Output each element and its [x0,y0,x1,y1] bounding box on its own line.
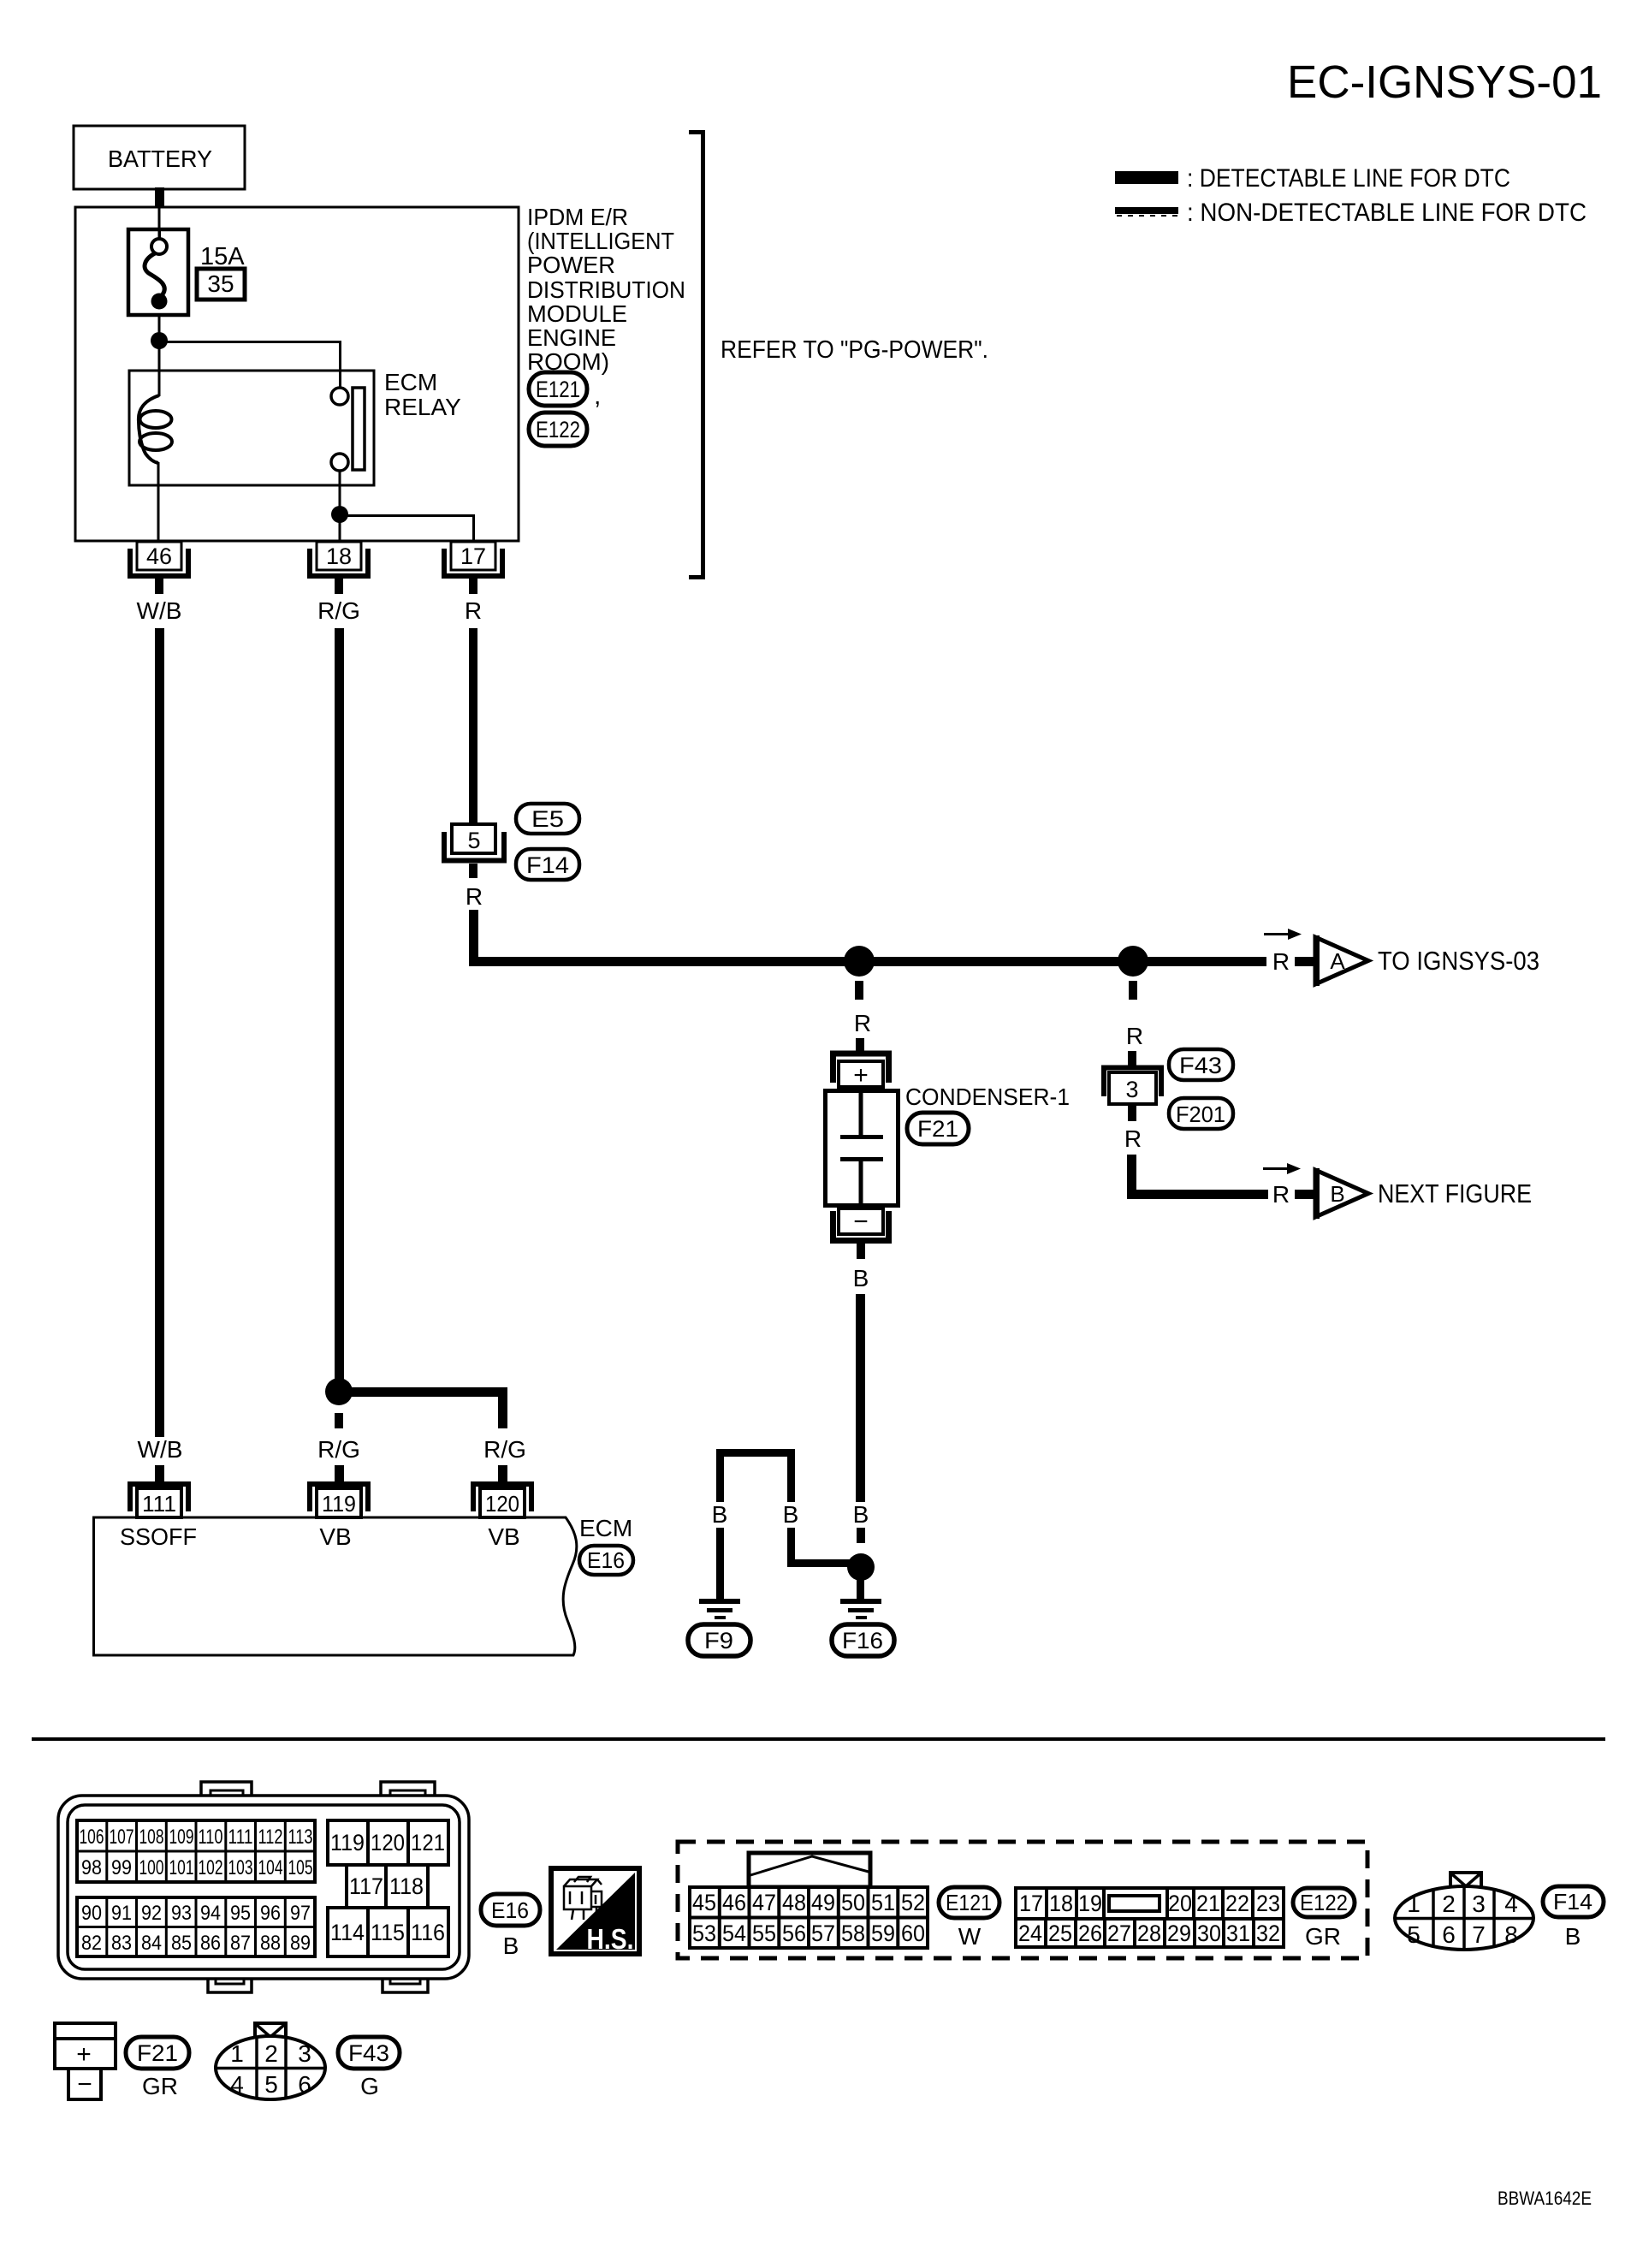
wire R to condenser [856,1038,864,1053]
svg-text:17: 17 [460,543,486,569]
svg-text:F14: F14 [1553,1889,1593,1915]
condenser-1 top bracket [833,1054,889,1083]
terminal 119 [307,1484,371,1517]
svg-text:6: 6 [1442,1921,1456,1948]
svg-text:BATTERY: BATTERY [108,145,212,172]
svg-text:92: 92 [141,1902,162,1925]
svg-text:VB: VB [488,1523,519,1550]
label B middle [783,1501,799,1528]
svg-text:93: 93 [171,1902,192,1925]
svg-text:121: 121 [411,1830,445,1855]
small arrow above B [1263,1163,1301,1174]
ground symbol F9 [699,1599,740,1619]
svg-text:119: 119 [322,1491,356,1517]
svg-text:RELAY: RELAY [384,394,461,420]
terminal 17 [442,542,505,594]
svg-text:82: 82 [81,1932,102,1955]
svg-text:101: 101 [169,1856,194,1879]
svg-text:31: 31 [1226,1921,1250,1946]
E121 hood [749,1853,870,1887]
connector label F43 [1169,1049,1233,1080]
svg-text:86: 86 [200,1932,221,1955]
svg-text:2: 2 [1442,1891,1456,1917]
svg-text:51: 51 [871,1890,895,1915]
wire B loop F9 [721,1453,792,1503]
E16 pin grid lower-left [77,1897,315,1956]
H.S. emblem [551,1868,639,1955]
connector label E122 [529,413,587,446]
svg-text:SSOFF: SSOFF [120,1523,197,1550]
svg-text:55: 55 [752,1921,776,1946]
svg-text:−: − [77,2070,92,2099]
svg-text:+: + [76,2040,92,2069]
connector label E121 [529,372,601,410]
svg-text:114: 114 [330,1920,365,1945]
svg-text:F16: F16 [842,1628,883,1654]
svg-text:103: 103 [228,1856,253,1879]
svg-text:111: 111 [142,1491,176,1517]
relay coil [139,395,172,463]
svg-text:60: 60 [901,1921,925,1946]
label R/G above ECM 119 [317,1436,360,1463]
svg-text:25: 25 [1048,1921,1072,1946]
inline connector 3 (F43/F201) [1104,1068,1161,1122]
svg-text:E121: E121 [946,1890,992,1915]
svg-text:5: 5 [1407,1921,1421,1948]
connector label F43 (bottom) [338,2037,400,2099]
legend non-detectable line bar [1115,207,1178,217]
label R before arrow A [1272,948,1290,975]
svg-text:111: 111 [228,1826,253,1849]
svg-text:MODULE: MODULE [527,300,627,327]
svg-text:B: B [503,1933,519,1959]
legend non-detectable line text [1187,199,1587,227]
svg-text:83: 83 [111,1932,132,1955]
F14 connector drawing [1395,1873,1533,1950]
E16 ECM connector outline [58,1782,469,1992]
separator line [32,1737,1605,1741]
svg-text:120: 120 [371,1830,405,1855]
wire to terminal 119 [335,1465,344,1488]
wire dashed B right [857,1528,865,1543]
svg-text:118: 118 [389,1873,424,1899]
svg-text:R: R [1126,1023,1143,1049]
svg-text:R: R [1272,1181,1290,1208]
svg-text:8: 8 [1504,1921,1518,1948]
svg-text:B: B [1330,1181,1344,1207]
svg-text:B: B [1565,1923,1581,1950]
wire R terminal 17 to connector 5 [469,628,477,825]
ground symbol F16 [840,1599,881,1619]
svg-text:+: + [853,1061,869,1089]
fuse number 35 box [197,269,245,300]
svg-text:ENGINE: ENGINE [527,324,616,351]
svg-text:115: 115 [371,1920,405,1945]
node bus junction 1 [844,946,875,977]
ECM relay box [129,371,374,485]
svg-text:98: 98 [81,1856,102,1879]
label R below connector 3 [1124,1125,1142,1152]
wire stub to arrow A [1295,957,1314,966]
svg-text:5: 5 [467,828,480,853]
svg-text:18: 18 [326,543,352,569]
svg-text:29: 29 [1167,1921,1191,1946]
fuse rating 15A [200,243,245,270]
fuse 15A (35) [128,229,188,315]
svg-text:35: 35 [207,270,234,297]
wire to terminal 111 [155,1465,164,1488]
IPDM E/R box [75,207,519,541]
label VB 120 [488,1523,519,1550]
svg-text:27: 27 [1107,1921,1131,1946]
svg-text:F43: F43 [348,2040,389,2066]
svg-text:22: 22 [1225,1891,1249,1916]
svg-text:20: 20 [1168,1891,1192,1916]
svg-text:ECM: ECM [579,1515,632,1541]
label R [465,597,482,624]
svg-text:52: 52 [901,1890,925,1915]
svg-text:R/G: R/G [483,1436,526,1463]
svg-text:B: B [783,1501,799,1528]
connector label E16 [579,1546,633,1575]
svg-text:30: 30 [1197,1921,1221,1946]
svg-text:R/G: R/G [317,1436,360,1463]
svg-text:B: B [712,1501,728,1528]
svg-text:106: 106 [80,1826,104,1849]
svg-text:E122: E122 [536,417,580,442]
svg-text:17: 17 [1019,1891,1043,1916]
node R/G junction [325,1378,353,1405]
svg-text:6: 6 [298,2071,311,2098]
svg-text:POWER: POWER [527,252,615,278]
svg-text:120: 120 [485,1491,519,1517]
label R above condenser [854,1010,871,1036]
svg-text:32: 32 [1256,1921,1280,1946]
svg-text:R: R [854,1010,871,1036]
node ground junction [847,1553,875,1581]
connector label F14 [516,849,579,880]
wire R/G junction branch to terminal 120 [339,1392,503,1429]
svg-text:(INTELLIGENT: (INTELLIGENT [527,228,674,254]
label CONDENSER-1 [905,1084,1070,1110]
svg-text:85: 85 [171,1932,192,1955]
svg-text:3: 3 [298,2040,311,2067]
svg-text:W/B: W/B [137,597,182,624]
svg-text:2: 2 [264,2040,278,2067]
svg-text:46: 46 [146,543,172,569]
svg-text:91: 91 [111,1902,132,1925]
label R/G [317,597,360,624]
svg-text:A: A [1330,948,1345,974]
arrow A TO IGNSYS-03 [1314,935,1368,986]
svg-text:ECM: ECM [384,369,437,395]
svg-text:95: 95 [230,1902,251,1925]
wire B middle to junction [792,1528,851,1564]
wire node to terminal 18 [339,514,341,542]
node relay output junction [331,506,348,523]
svg-text:B: B [853,1265,869,1291]
arrow B NEXT FIGURE [1314,1168,1368,1219]
svg-text:CONDENSER-1: CONDENSER-1 [905,1084,1070,1110]
connector label F201 [1169,1098,1233,1129]
svg-text:102: 102 [199,1856,223,1879]
svg-text:84: 84 [141,1932,162,1955]
svg-text:54: 54 [722,1921,746,1946]
node fuse/relay junction [151,332,168,349]
wire W/B terminal 46 to ECM 111 [155,628,164,1437]
wire junction to ground F16 [857,1567,864,1601]
IPDM label text [527,204,685,375]
node bus junction 2 [1118,946,1148,977]
E121 pin grid [690,1887,928,1948]
svg-text:1: 1 [1407,1891,1421,1917]
condenser-1 minus terminal box [839,1208,883,1236]
wire R to connector 3 [1128,1051,1136,1066]
svg-text:H.S.: H.S. [587,1923,634,1955]
svg-text:47: 47 [752,1890,776,1915]
wire battery to IPDM [155,187,164,208]
svg-text:46: 46 [722,1890,746,1915]
svg-text:W: W [958,1923,982,1950]
wire node to terminal 17 [340,516,474,543]
svg-text:R/G: R/G [317,597,360,624]
svg-text:21: 21 [1196,1891,1220,1916]
wire R connector 5 to bus [474,910,1267,962]
svg-text:19: 19 [1078,1891,1102,1916]
svg-text:112: 112 [258,1826,283,1849]
svg-text:57: 57 [811,1921,835,1946]
svg-text:E16: E16 [491,1897,529,1923]
svg-text:87: 87 [230,1932,251,1955]
connector label F21 (bottom) [126,2037,189,2099]
wire B condenser to ground junction [856,1294,865,1502]
connector label E122 (bottom) [1293,1888,1355,1950]
svg-text:3: 3 [1125,1077,1138,1102]
svg-text:113: 113 [288,1826,313,1849]
ground label F9 [688,1624,750,1656]
svg-text:R: R [1272,948,1290,975]
svg-text:100: 100 [139,1856,164,1879]
label R/G above ECM 120 [483,1436,526,1463]
svg-text:18: 18 [1049,1891,1073,1916]
svg-text:GR: GR [142,2073,178,2099]
ground label F16 [832,1624,894,1656]
bracket refer to PG-POWER [689,133,703,578]
label ECM [579,1515,632,1541]
wire node to relay coil [158,341,161,396]
svg-text:49: 49 [811,1890,835,1915]
svg-text:28: 28 [1137,1921,1161,1946]
svg-text:7: 7 [1472,1921,1486,1948]
svg-text:R: R [466,883,483,910]
svg-text:GR: GR [1305,1923,1341,1950]
svg-text:EC-IGNSYS-01: EC-IGNSYS-01 [1287,56,1602,108]
ECM box [94,1517,577,1655]
svg-text:15A: 15A [200,243,245,270]
wire fuse to node [158,315,161,333]
condenser-1 bottom bracket [833,1211,889,1241]
svg-text:F43: F43 [1179,1053,1222,1078]
svg-text:: DETECTABLE LINE FOR DTC: : DETECTABLE LINE FOR DTC [1187,164,1510,193]
svg-text:59: 59 [871,1921,895,1946]
svg-text:58: 58 [841,1921,865,1946]
svg-text:1: 1 [230,2040,244,2067]
terminal 46 [128,542,191,594]
connector label E121 (bottom) [939,1887,999,1950]
connector label F21 [907,1113,969,1144]
svg-text:B: B [853,1501,869,1528]
svg-text:REFER TO "PG-POWER".: REFER TO "PG-POWER". [721,336,988,364]
svg-text:89: 89 [290,1932,311,1955]
svg-text:94: 94 [200,1902,221,1925]
svg-text:F21: F21 [917,1116,958,1142]
svg-text:23: 23 [1256,1891,1280,1916]
svg-text:45: 45 [692,1890,716,1915]
wire dashed below R/G junction [335,1413,343,1428]
svg-text:E5: E5 [531,806,564,832]
small arrow above A [1264,929,1302,940]
svg-text:48: 48 [782,1890,806,1915]
svg-text:97: 97 [290,1902,311,1925]
wire contact to node 18 [339,471,341,514]
battery [74,126,245,189]
svg-text:4: 4 [230,2071,244,2098]
svg-text:IPDM E/R: IPDM E/R [527,204,628,230]
wire node to relay contact [159,342,341,389]
svg-text:24: 24 [1018,1921,1042,1946]
ECM RELAY label [384,369,461,420]
svg-text:90: 90 [81,1902,102,1925]
svg-text:26: 26 [1078,1921,1102,1946]
terminal 18 [307,542,371,594]
label R below connector 5 [466,883,483,910]
svg-text:E121: E121 [536,377,580,402]
terminal 111 [128,1484,191,1517]
svg-text:TO IGNSYS-03: TO IGNSYS-03 [1378,946,1539,976]
text REFER TO PG-POWER [721,336,988,364]
label W/B above ECM [138,1436,183,1463]
svg-text:F14: F14 [526,852,569,878]
wire battery to fuse [158,207,161,231]
title EC-IGNSYS-01 [1287,56,1602,108]
svg-text:E122: E122 [1300,1890,1348,1915]
connector label F14 (bottom) [1543,1886,1604,1950]
legend detectable line text [1187,164,1510,193]
svg-text:DISTRIBUTION: DISTRIBUTION [527,276,685,303]
svg-text:,: , [594,382,601,410]
svg-text:105: 105 [288,1856,313,1879]
svg-text:3: 3 [1472,1891,1486,1917]
F21 connector drawing [55,2023,116,2099]
wire stub to arrow B [1295,1190,1314,1199]
F43 connector drawing [216,2023,325,2099]
legend detectable line bar [1115,171,1178,184]
svg-text:108: 108 [139,1826,164,1849]
svg-text:110: 110 [199,1826,223,1849]
label B right [853,1501,869,1528]
E122 pin grid [1016,1888,1284,1947]
svg-text:BBWA1642E: BBWA1642E [1498,2188,1592,2209]
svg-text:104: 104 [258,1856,283,1879]
label B left [712,1501,728,1528]
wire stub below condenser [857,1244,865,1259]
svg-text:R: R [465,597,482,624]
svg-text:119: 119 [330,1830,365,1855]
wire R connector 3 to arrow B [1132,1155,1269,1195]
svg-text:107: 107 [110,1826,134,1849]
svg-text:NEXT FIGURE: NEXT FIGURE [1378,1179,1532,1208]
connector label E16 (bottom) [481,1894,540,1959]
svg-text:−: − [853,1208,869,1236]
svg-text:99: 99 [111,1856,132,1879]
svg-text:50: 50 [841,1890,865,1915]
svg-text:E16: E16 [587,1547,625,1573]
svg-text:56: 56 [782,1921,806,1946]
E16 pin grid right [328,1820,448,1956]
svg-text:G: G [360,2073,379,2099]
svg-text:96: 96 [260,1902,281,1925]
condenser-1 body [826,1090,899,1206]
label VB 119 [319,1523,351,1550]
svg-text:53: 53 [692,1921,716,1946]
svg-text:88: 88 [260,1932,281,1955]
text TO IGNSYS-03 [1378,946,1539,976]
svg-text:4: 4 [1504,1891,1518,1917]
svg-text:W/B: W/B [138,1436,183,1463]
wire R/G terminal 18 to junction [335,628,344,1380]
text NEXT FIGURE [1378,1179,1532,1208]
svg-text:117: 117 [349,1873,383,1899]
svg-text:5: 5 [264,2071,278,2098]
footer code BBWA1642E [1498,2188,1592,2209]
label SSOFF [120,1523,197,1550]
inline connector 5 (E5/F14) [442,824,507,878]
connector label E5 [516,804,579,834]
dashed group box E121/E122 [678,1842,1367,1958]
E16 pin grid upper-left [77,1820,315,1882]
wire dashed below junction 1 [855,981,863,1000]
svg-text:F201: F201 [1176,1101,1225,1127]
wire dashed below junction 2 [1129,981,1137,1000]
condenser-1 plus terminal box [839,1061,883,1089]
svg-text:109: 109 [169,1826,194,1849]
svg-text:F9: F9 [704,1628,733,1654]
relay contact [331,388,365,471]
svg-text:R: R [1124,1125,1142,1152]
label B below condenser [853,1265,869,1291]
svg-text:: NON-DETECTABLE LINE FOR DTC: : NON-DETECTABLE LINE FOR DTC [1187,199,1587,227]
wire to terminal 120 [498,1465,507,1488]
svg-text:F21: F21 [137,2040,178,2066]
svg-text:VB: VB [319,1523,351,1550]
svg-text:116: 116 [411,1920,445,1945]
wire B to ground F9 [716,1528,724,1601]
label R before arrow B [1272,1181,1290,1208]
wire coil to terminal 46 [157,462,160,542]
label W/B [137,597,182,624]
terminal 120 [471,1484,534,1517]
label R above connector 3 [1126,1023,1143,1049]
